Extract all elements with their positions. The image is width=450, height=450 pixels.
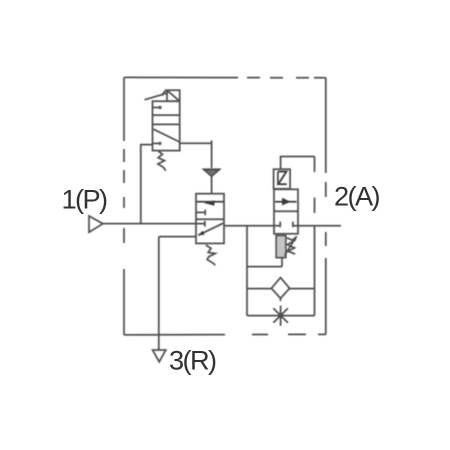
pilot feedback dashed line — [314, 157, 316, 226]
svg-text:3(R): 3(R) — [169, 345, 216, 376]
svg-text:1(P): 1(P) — [62, 184, 108, 215]
V2 bottom-cell flow diagonal with arrowhead — [198, 223, 223, 235]
V1 bottom-cell flow diagonal — [153, 129, 179, 142]
enclosure dashed border bottom — [124, 333, 326, 336]
wire: loop left vertical — [246, 226, 248, 316]
pilot actuation arrow on V2 — [204, 169, 220, 176]
V3 pilot head box — [274, 169, 291, 189]
V3 adjusting spring — [287, 238, 295, 254]
relief valve V3 body — [274, 189, 298, 234]
wire: V3 drain to left loop — [247, 266, 282, 268]
V2 top-cell flow arrow (left) — [197, 200, 224, 205]
wire: V3 pilot feedback top — [281, 157, 315, 170]
wire: loop right vertical — [314, 226, 316, 316]
V1 manual override lever — [145, 90, 169, 100]
port 3(R) triangle — [153, 350, 166, 362]
V3 adjustable spring box — [276, 236, 286, 258]
wire: branch from supply up to pilot valve V1 — [141, 145, 153, 224]
wire: output line from V2 to 2(A) — [224, 225, 280, 227]
wire: V3 drain stem — [281, 258, 283, 267]
V3 bottom-cell blocked port bars — [280, 222, 293, 228]
diamond bottom stub — [280, 298, 282, 301]
wire: pilot line down to main valve V2 — [211, 140, 213, 168]
enclosure dashed border top — [124, 76, 326, 78]
wire: V2 lower-left port to exhaust branch — [159, 236, 196, 238]
enclosure dashed border left — [123, 77, 125, 335]
V3 top-cell flow arrow (right) — [275, 198, 296, 206]
svg-text:2(A): 2(A) — [334, 181, 380, 212]
wire: exhaust line down to 3(R) — [158, 237, 160, 350]
pilot solenoid valve V1 body — [153, 101, 180, 150]
V2 return spring — [206, 245, 216, 265]
check valve diamond — [271, 278, 289, 299]
V2 bottom-cell port stub — [204, 221, 206, 227]
V1 solenoid coil box — [167, 90, 180, 101]
V1 bottom-cell port with dot — [153, 142, 162, 145]
wire: arrow to V2 top — [211, 176, 213, 193]
V3 adjustment arrow — [285, 236, 298, 256]
fixed restrictor star — [273, 306, 288, 326]
wire: loop middle line left — [247, 288, 272, 290]
wire: main supply line 1(P) — [103, 223, 205, 225]
wire: loop middle line right — [290, 288, 315, 290]
wire: loop bottom line — [247, 315, 315, 317]
V1 return spring — [158, 151, 166, 171]
V1 top-cell blocked port with dot — [153, 106, 162, 109]
wire: V1 output to pilot line — [180, 142, 212, 144]
V2 top-cell blocked port — [196, 210, 205, 216]
main valve V2 body — [196, 194, 224, 244]
port 1(P) triangle — [89, 216, 103, 232]
enclosure dashed border right — [325, 78, 327, 335]
wire: output line right section to 2(A) — [293, 225, 341, 227]
